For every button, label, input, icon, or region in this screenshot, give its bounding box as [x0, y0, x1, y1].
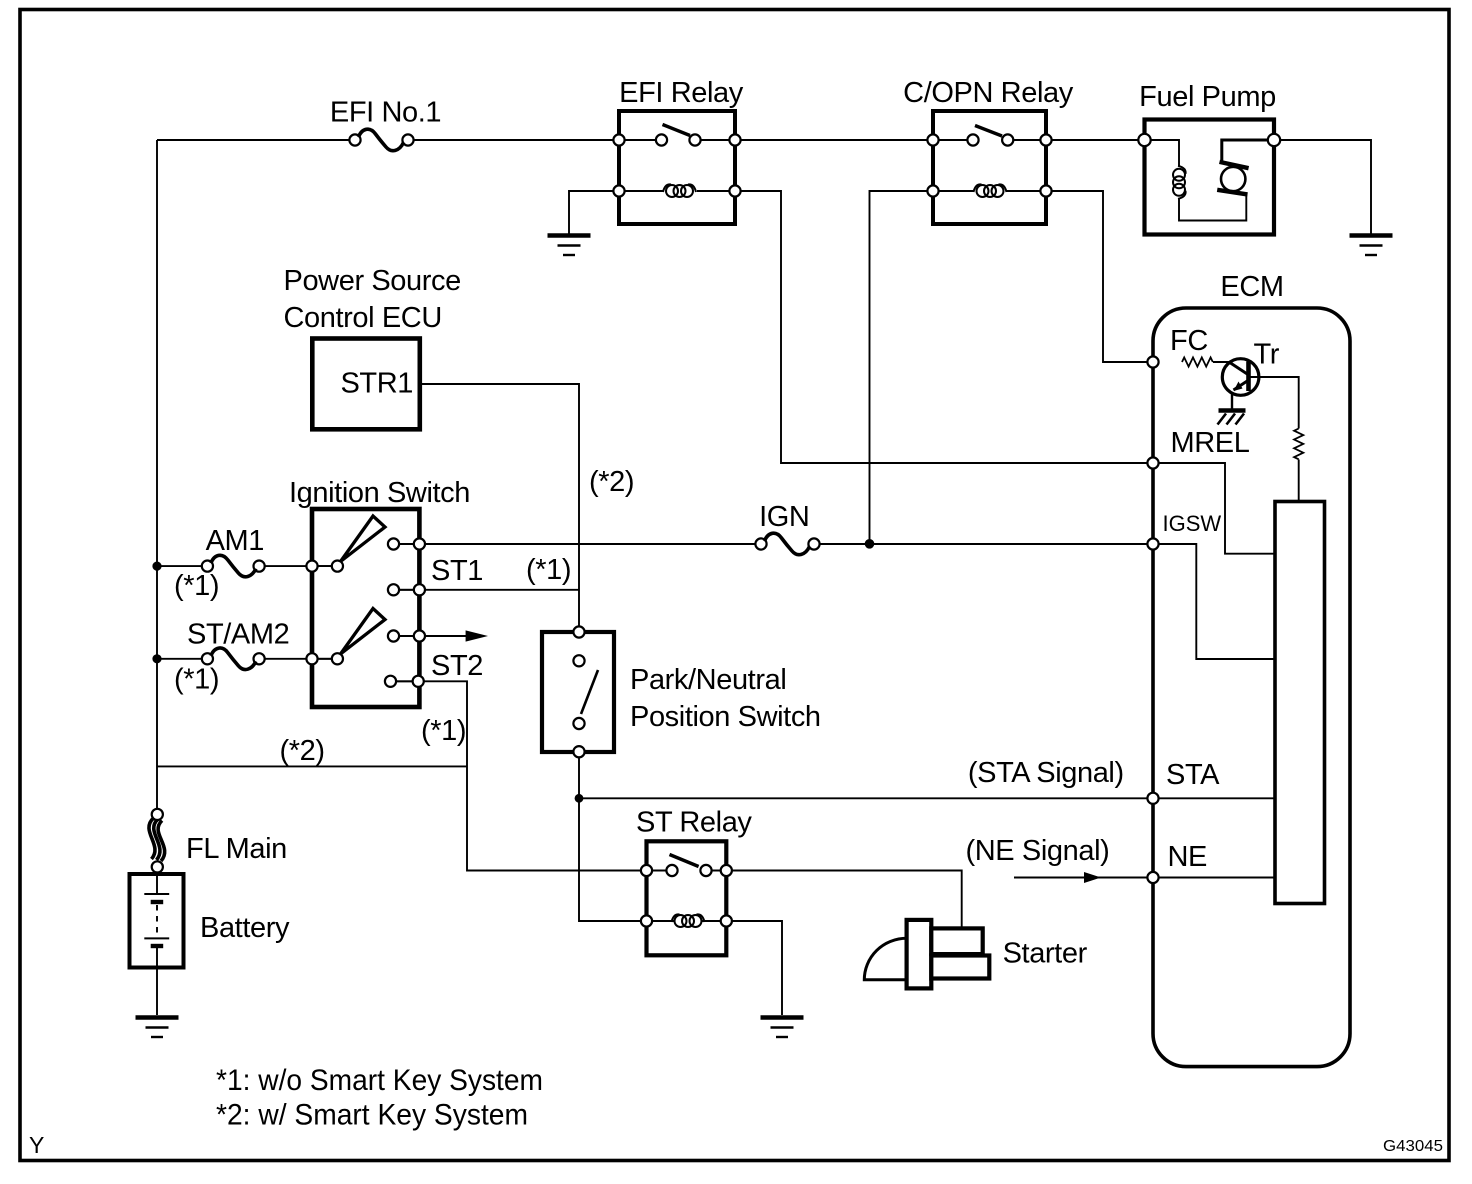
motor circle fuel pump [1221, 167, 1245, 191]
svg-text:Control ECU: Control ECU [284, 302, 442, 334]
starter lower rect [931, 956, 989, 979]
wire: C/OPN relay coil right to FC [1046, 191, 1153, 362]
terminals ST relay [641, 865, 652, 876]
fusible link FL Main [149, 818, 165, 861]
wire: NE signal row [1014, 877, 1153, 879]
svg-text:(*1): (*1) [174, 664, 219, 696]
svg-text:*1: w/o Smart Key System: *1: w/o Smart Key System [216, 1064, 543, 1097]
node AM1 bus junction [152, 562, 161, 571]
switch blade EFI relay [663, 125, 691, 136]
starter solenoid rect [907, 920, 932, 989]
svg-text:FL Main: FL Main [186, 833, 287, 865]
svg-text:ST2: ST2 [431, 650, 483, 682]
wire: ST/AM2 fuse to ignition switch [265, 658, 341, 660]
wire: EFI No.1 fuse to EFI relay [413, 139, 619, 141]
terminals ignition switch [306, 561, 317, 572]
fuse AM1 [202, 555, 265, 576]
fuel pump box [1145, 120, 1275, 235]
starter upper rect [931, 928, 982, 954]
pins ECM [1147, 356, 1158, 367]
contact wedge AM1 [341, 516, 386, 562]
wire: IGSW pin to ECM block [1153, 544, 1275, 659]
svg-text:(STA Signal): (STA Signal) [968, 757, 1124, 789]
starter quarter housing [864, 938, 906, 980]
svg-text:Starter: Starter [1003, 938, 1088, 970]
wire: ST/AM2 row left [157, 658, 202, 660]
wire: ST relay switch right to starter [726, 871, 961, 929]
wire: AM1 fuse to ignition switch [265, 565, 341, 567]
coil C/OPN relay [974, 184, 1007, 197]
switch blade C/OPN relay [975, 126, 1002, 137]
svg-text:IGSW: IGSW [1163, 511, 1222, 536]
svg-text:(*2): (*2) [589, 466, 634, 498]
wire: EFI relay coil left to ground [569, 191, 619, 234]
wire: EFI relay coil right to MREL [735, 191, 1153, 463]
svg-text:Y: Y [29, 1132, 44, 1158]
svg-text:STR1: STR1 [340, 368, 413, 400]
wire: (*2) smart key row [157, 765, 467, 767]
svg-text:Park/Neutral: Park/Neutral [630, 664, 786, 696]
node IGN junction [865, 539, 875, 549]
terminals fuel pump [1138, 134, 1150, 146]
arrow ACC output [466, 630, 488, 641]
svg-text:Tr: Tr [1254, 339, 1280, 371]
wire: PNP switch to STA junction and ST relay coil [579, 752, 674, 921]
svg-text:(NE Signal): (NE Signal) [966, 835, 1110, 867]
svg-text:Fuel Pump: Fuel Pump [1139, 81, 1276, 113]
svg-text:MREL: MREL [1171, 427, 1250, 459]
wire: Fuel Pump to right ground [1274, 140, 1371, 234]
wire: NE pin to ECM block [1153, 877, 1275, 879]
wire: STA signal row [579, 797, 1153, 799]
ground right of fuel pump [1350, 236, 1393, 256]
contact wedge ST/AM2 [341, 609, 386, 655]
svg-text:FC: FC [1170, 325, 1208, 357]
svg-text:NE: NE [1168, 841, 1208, 873]
node STA junction [575, 794, 584, 803]
wire: ST2 row to vertical [391, 681, 647, 870]
wire: C/OPN relay coil left to IGN junction [870, 191, 934, 544]
svg-text:ST1: ST1 [431, 555, 483, 587]
fuse EFI No.1 [349, 129, 413, 150]
arrowhead transistor emitter [1234, 382, 1243, 392]
motor brush top [1220, 162, 1249, 168]
wire: resistor to transistor [1213, 361, 1231, 363]
node ST/AM2 bus junction [152, 654, 161, 663]
wire: left vertical battery bus [156, 140, 158, 809]
svg-text:AM1: AM1 [206, 525, 264, 557]
terminals C/OPN relay [927, 134, 938, 145]
svg-text:ECM: ECM [1220, 271, 1283, 303]
terminals park/neutral switch [573, 626, 584, 637]
wire: STA pin to ECM block [1153, 797, 1275, 799]
svg-text:EFI Relay: EFI Relay [619, 77, 744, 109]
wire: fuel pump interior right branch [1222, 140, 1274, 162]
battery box [130, 874, 184, 968]
resistor FC (horizontal zigzag) [1182, 357, 1213, 366]
wire: AM1 row left [157, 565, 202, 567]
fuse IGN [755, 533, 819, 554]
wire: ST1 row [394, 589, 580, 591]
motor brush bottom [1217, 190, 1247, 195]
svg-text:ST/AM2: ST/AM2 [187, 619, 289, 651]
wire: EFI relay contact stubs [619, 140, 735, 191]
svg-text:(*1): (*1) [174, 570, 219, 602]
wire: MREL pin to ECM block [1153, 463, 1275, 554]
svg-text:ST Relay: ST Relay [636, 807, 752, 839]
ECM rounded box [1153, 308, 1350, 1067]
svg-text:EFI No.1: EFI No.1 [330, 97, 441, 129]
svg-text:Power Source: Power Source [284, 265, 461, 297]
svg-text:G43045: G43045 [1383, 1138, 1443, 1155]
ground below EFI relay [548, 236, 591, 256]
wire: fuel pump interior left branch [1145, 140, 1247, 221]
ignition switch box [312, 509, 419, 707]
switch blade park/neutral [581, 670, 598, 714]
svg-text:*2: w/ Smart Key System: *2: w/ Smart Key System [216, 1099, 528, 1132]
transistor Tr [1222, 359, 1259, 411]
wire: STR1 output to park/neutral switch [420, 384, 579, 632]
ground transistor (hatched) [1218, 411, 1246, 425]
wire: EFI relay to C/OPN relay [735, 139, 933, 141]
terminals EFI relay [613, 134, 624, 145]
STR1 box [312, 339, 420, 430]
ground below battery [136, 1018, 179, 1038]
fuse ST/AM2 [202, 648, 265, 669]
relay box C/OPN Relay [933, 111, 1046, 224]
wire: transistor base to pull-up resistor [1251, 377, 1299, 429]
switch blade ST relay [670, 855, 699, 867]
ST relay box [647, 841, 727, 955]
svg-text:IGN: IGN [759, 501, 809, 533]
wire: ST relay coil right to ground [726, 921, 782, 1015]
coil ST relay [672, 914, 705, 927]
ECM internal block [1275, 502, 1325, 904]
coil fuel pump (vertical) [1173, 166, 1186, 199]
wire: C/OPN relay to Fuel Pump [1046, 139, 1144, 141]
svg-text:STA: STA [1166, 759, 1220, 791]
wire: top bus left segment to EFI No.1 fuse [157, 139, 349, 141]
svg-text:Battery: Battery [200, 912, 290, 944]
wire: resistor to block [1298, 460, 1300, 502]
svg-text:Position Switch: Position Switch [630, 701, 821, 733]
wire: ACC arrow row [394, 635, 468, 637]
wire: ignition AM output to IGN fuse [394, 543, 756, 545]
svg-text:(*1): (*1) [421, 715, 466, 747]
svg-text:(*1): (*1) [526, 554, 571, 586]
svg-text:(*2): (*2) [280, 735, 325, 767]
arrow NE signal [1084, 872, 1101, 883]
wire: battery to ground [156, 968, 158, 1016]
coil EFI relay [663, 184, 696, 197]
resistor pull-up (vertical zigzag) [1294, 429, 1303, 460]
park/neutral switch box [542, 632, 614, 752]
svg-text:C/OPN Relay: C/OPN Relay [903, 77, 1074, 109]
svg-text:Ignition Switch: Ignition Switch [289, 477, 470, 509]
wire: IGN fuse to IGSW pin [820, 543, 1154, 545]
ground below ST relay [761, 1018, 804, 1038]
relay box EFI Relay [619, 111, 735, 224]
